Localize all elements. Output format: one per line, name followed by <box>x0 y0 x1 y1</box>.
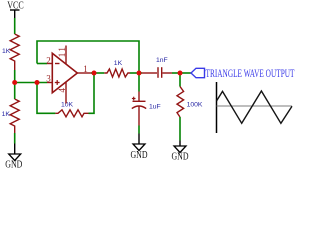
wire R2 to ground <box>14 133 16 144</box>
svg-text:1uF: 1uF <box>149 104 161 111</box>
junction node C <box>137 71 142 76</box>
op-amp output lead (pin 1) <box>77 72 91 74</box>
op-amp plus sign <box>55 82 60 84</box>
junction node D <box>178 71 183 76</box>
waveform axis vertical <box>216 82 218 133</box>
svg-text:11: 11 <box>57 46 67 57</box>
svg-text:100K: 100K <box>187 102 203 109</box>
waveform baseline <box>217 105 293 107</box>
resistor R3 10K horizontal (positive feedback) <box>55 110 88 117</box>
junction node A <box>12 80 17 85</box>
junction output node <box>92 71 97 76</box>
svg-text:GND: GND <box>172 152 189 163</box>
ground GND2 <box>133 144 145 151</box>
resistor R5 100K vertical <box>177 87 184 118</box>
op-amp power pin 4 bottom <box>65 82 67 104</box>
svg-text:2: 2 <box>46 55 51 65</box>
capacitor C1 1uF polarized <box>133 100 146 102</box>
triangle waveform <box>217 91 293 123</box>
svg-text:VCC: VCC <box>7 1 24 12</box>
wire node C down to C1 <box>138 73 140 92</box>
ground GND3 <box>174 146 186 153</box>
wire R4 to node C <box>130 72 139 74</box>
wire node A to op-amp +input <box>15 82 47 84</box>
op-amp power pin 11 top <box>65 46 67 65</box>
resistor R1 1K vertical <box>10 34 19 70</box>
resistor R4 1K horizontal <box>104 69 130 77</box>
wire node B down to R3 <box>37 83 55 114</box>
svg-text:1nF: 1nF <box>156 57 168 64</box>
output port connector <box>191 68 205 77</box>
ground GND1 <box>9 154 21 161</box>
svg-text:1K: 1K <box>2 48 11 55</box>
C1 plus mark <box>132 98 136 100</box>
wire R1 to node A <box>14 70 16 83</box>
wire output to R4 <box>91 72 104 74</box>
svg-text:10K: 10K <box>61 101 74 108</box>
svg-text:TRIANGLE WAVE OUTPUT: TRIANGLE WAVE OUTPUT <box>206 66 295 80</box>
op-amp -input wire (pin 2) <box>37 63 47 65</box>
svg-text:GND: GND <box>131 150 148 161</box>
feedback wire node C to -input <box>37 41 139 73</box>
VCC power symbol <box>10 10 20 18</box>
wire node D to output port <box>180 72 191 74</box>
wire R3 to output node <box>89 73 95 113</box>
resistor R2 1K vertical lower <box>10 99 19 133</box>
svg-text:4: 4 <box>57 88 67 93</box>
wire node C to C2 <box>139 72 142 74</box>
svg-text:3: 3 <box>46 74 51 84</box>
svg-text:GND: GND <box>5 160 22 171</box>
wire C1 to ground <box>138 106 140 125</box>
svg-text:1K: 1K <box>2 111 11 118</box>
wire VCC to R1 <box>14 18 16 34</box>
svg-text:1: 1 <box>83 64 88 74</box>
capacitor C2 1nF <box>157 67 159 78</box>
wire C2 to node D <box>163 72 173 74</box>
op-amp minus sign <box>55 63 60 65</box>
wire node A row to R2 lower divider <box>14 83 16 100</box>
svg-text:1K: 1K <box>114 60 123 67</box>
op-amp U1 <box>52 53 77 92</box>
wire R5 to ground <box>179 117 181 141</box>
junction node B <box>35 80 40 85</box>
wire node D down to R5 <box>179 73 181 87</box>
